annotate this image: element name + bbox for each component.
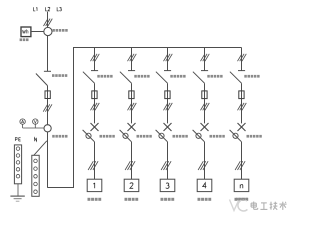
label sub distribution box 2 bbox=[125, 198, 139, 201]
label CT2 (dianliu huganqi) bbox=[52, 135, 67, 138]
wire branch 2 drop from busbar bbox=[131, 48, 133, 71]
outgoing distribution box 3 bbox=[160, 179, 175, 191]
wire branch 3 breaker to outgoing box bbox=[167, 142, 169, 180]
node L1 bbox=[34, 7, 37, 11]
current transformer CT1 (circle on wire) bbox=[44, 27, 52, 35]
three-phase hatch mark branch 5 upper bbox=[238, 54, 247, 61]
three-phase hatch mark branch 4 middle bbox=[201, 103, 210, 110]
node L2 bbox=[46, 7, 50, 11]
three-phase hatch mark branch 3 lower bbox=[161, 161, 171, 170]
three-phase hatch mark branch 5 lower bbox=[235, 161, 245, 170]
branch isolator switch QS2 (fen geli kaiguan) bbox=[120, 71, 135, 84]
watermark tiny caption bbox=[236, 198, 248, 200]
node N label bbox=[35, 138, 37, 142]
wire branch 1 isolator to breaker bbox=[94, 83, 96, 123]
ground (earth) bbox=[10, 196, 24, 201]
PE terminal bar bbox=[14, 145, 21, 184]
label sub distribution box 3 bbox=[161, 198, 175, 201]
watermark text dian gong ji shu bbox=[251, 202, 287, 210]
label branch isolator 5 bbox=[244, 75, 259, 78]
wire PE bar to earth bbox=[17, 184, 19, 196]
RCD breaker QF1 contact cross (lou dian duanluqi) bbox=[91, 123, 99, 131]
wire isolator to fuse bbox=[47, 86, 49, 126]
three-phase hatch mark branch 1 upper bbox=[91, 54, 100, 61]
outgoing distribution box 4 bbox=[197, 179, 212, 191]
current transformer CT2 (circle on wire) bbox=[44, 125, 51, 132]
three-phase hatch mark branch 2 upper bbox=[128, 54, 137, 61]
wire branch 2 isolator to breaker bbox=[131, 83, 133, 123]
three-phase hatch mark on incoming wire bbox=[44, 19, 53, 26]
fuse FU2 bbox=[129, 91, 134, 99]
energy meter Wh box bbox=[21, 27, 31, 37]
wire branch 1 breaker to outgoing box bbox=[94, 142, 96, 180]
outgoing distribution box 2 bbox=[124, 179, 139, 191]
wire meter to CT1 bbox=[31, 31, 44, 33]
label RCD breaker 2 bbox=[137, 135, 152, 138]
fuse FU3 bbox=[165, 91, 170, 99]
three-phase hatch mark branch 3 middle bbox=[164, 103, 173, 110]
wire branch 3 isolator to breaker bbox=[167, 83, 169, 123]
RCD breaker QF2 contact cross (lou dian duanluqi) bbox=[128, 123, 136, 131]
wire meters to CT2 bbox=[23, 127, 45, 129]
fuse FU4 bbox=[202, 91, 207, 99]
outgoing distribution box n bbox=[234, 179, 249, 191]
label sub distribution box n bbox=[235, 198, 249, 201]
three-phase hatch mark branch 4 lower bbox=[198, 161, 208, 170]
branch isolator switch QS4 (fen geli kaiguan) bbox=[193, 71, 208, 84]
label main isolator bbox=[52, 74, 67, 77]
ammeter A bbox=[20, 119, 25, 128]
label branch isolator 3 bbox=[170, 75, 185, 78]
label RCD breaker 4 bbox=[210, 135, 225, 138]
voltmeter V bbox=[33, 119, 38, 128]
wire N tap diagonal bbox=[34, 141, 47, 156]
watermark logo swirl bbox=[230, 200, 248, 211]
outgoing distribution box 1 bbox=[87, 179, 102, 191]
wire branch 4 breaker to outgoing box bbox=[204, 142, 206, 180]
fuse FU1 bbox=[92, 91, 97, 99]
wire branch 5 isolator to breaker bbox=[241, 83, 243, 123]
RCD breaker QF3 blade with sensing ring bbox=[156, 130, 168, 142]
three-phase hatch mark branch 1 middle bbox=[91, 103, 100, 110]
three-phase hatch mark below main fuse bbox=[43, 104, 52, 111]
label CT1 (dianliu huganqi) bbox=[52, 29, 67, 32]
wire branch 4 drop from busbar bbox=[204, 48, 206, 71]
node L3 bbox=[57, 7, 61, 11]
branch isolator switch QS1 (fen geli kaiguan) bbox=[83, 71, 98, 84]
RCD breaker QF4 contact cross (lou dian duanluqi) bbox=[201, 123, 209, 131]
three-phase hatch mark branch 4 upper bbox=[201, 54, 210, 61]
RCD breaker QF1 blade with sensing ring bbox=[83, 130, 95, 142]
RCD breaker QF5 blade with sensing ring bbox=[230, 130, 242, 142]
three-phase hatch mark branch 2 lower bbox=[125, 161, 135, 170]
wire branch 5 drop from busbar bbox=[241, 48, 243, 71]
N terminal bar bbox=[32, 155, 39, 196]
RCD breaker QF5 contact cross (lou dian duanluqi) bbox=[238, 123, 246, 131]
wire branch 5 breaker to outgoing box bbox=[241, 142, 243, 180]
wire branch 3 drop from busbar bbox=[167, 48, 169, 71]
RCD breaker QF2 blade with sensing ring bbox=[120, 130, 132, 142]
label RCD breaker 5 bbox=[247, 135, 262, 138]
label branch isolator 1 bbox=[97, 75, 112, 78]
RCD breaker QF3 contact cross (lou dian duanluqi) bbox=[164, 123, 172, 131]
wire CT2 down left side bbox=[47, 132, 49, 188]
three-phase hatch mark branch 1 lower bbox=[88, 161, 98, 170]
label branch isolator 2 bbox=[134, 75, 149, 78]
wire incoming supply bbox=[47, 12, 49, 28]
wire branch 1 drop from busbar bbox=[94, 48, 96, 71]
label sub distribution box 4 bbox=[198, 198, 212, 201]
label energy meter (diandubiao) bbox=[20, 38, 29, 41]
label sub distribution box 1 bbox=[88, 198, 102, 201]
three-phase hatch mark branch 3 upper bbox=[164, 54, 173, 61]
main isolator switch QS (zong geli kaiguan) bbox=[36, 71, 51, 85]
fuse FU5 bbox=[239, 91, 244, 99]
label branch isolator 4 bbox=[207, 75, 222, 78]
label RCD breaker 3 bbox=[173, 135, 188, 138]
three-phase hatch mark branch 2 middle bbox=[128, 103, 137, 110]
branch isolator switch QS5 (fen geli kaiguan) bbox=[230, 71, 245, 84]
three-phase hatch mark branch 5 middle bbox=[238, 103, 247, 110]
wire branch 4 isolator to breaker bbox=[204, 83, 206, 123]
wire bottom feeder and riser to busbar bbox=[48, 48, 242, 188]
branch isolator switch QS3 (fen geli kaiguan) bbox=[156, 71, 171, 84]
node PE label bbox=[15, 138, 20, 141]
RCD breaker QF4 blade with sensing ring bbox=[193, 130, 205, 142]
fuse FU main bbox=[45, 91, 50, 99]
wire branch 2 breaker to outgoing box bbox=[131, 142, 133, 180]
label RCD breaker 1 bbox=[100, 135, 115, 138]
wire CT1 to main isolator bbox=[47, 35, 49, 71]
